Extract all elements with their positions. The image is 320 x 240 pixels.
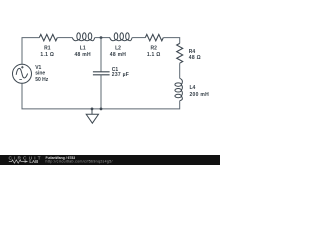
resistor R4 [177,43,183,63]
ground [86,109,98,123]
inductor L2 [110,33,132,41]
logo arrowhead [25,160,29,163]
svg-text:1.1 Ω: 1.1 Ω [147,52,161,58]
wire R2 to top-right corner down to R4 [163,38,179,44]
resistor R2 [145,34,163,40]
wire top-left from source to R1 [22,38,39,65]
svg-text:R2: R2 [150,46,157,52]
capacitor C1 top lead [100,38,102,72]
inductor L4 [175,78,183,100]
svg-text:200 mH: 200 mH [190,92,210,98]
svg-text:LAB: LAB [29,159,38,164]
svg-text:237 µF: 237 µF [112,72,129,78]
svg-text:50 Hz: 50 Hz [35,77,49,83]
svg-text:L4: L4 [190,85,196,91]
inductor L1 [72,33,94,41]
svg-text:http://circuitlab.com/c/f5b9nq: http://circuitlab.com/c/f5b9nq2s4g5/ [46,160,113,164]
svg-text:L1: L1 [80,46,86,52]
resistor R1 [39,34,57,40]
svg-text:1.1 Ω: 1.1 Ω [40,52,54,58]
svg-text:48 mH: 48 mH [110,52,127,58]
junction dot ground [91,108,94,111]
svg-text:48 Ω: 48 Ω [189,55,201,61]
capacitor C1 bottom lead [100,75,102,109]
node A junction dot [100,36,103,39]
svg-text:L2: L2 [115,46,121,52]
voltage source V1 [13,64,32,83]
svg-text:sine: sine [35,70,45,76]
wire R1 to L1 [57,37,72,39]
logo zigzag wire [9,160,25,163]
junction dot C1-bottom [100,108,103,111]
capacitor C1 [93,72,110,75]
svg-text:R1: R1 [44,46,51,52]
wire L4 to bottom rail [22,83,180,109]
svg-text:48 mH: 48 mH [74,52,91,58]
footer bar [0,155,220,165]
svg-text:R4: R4 [189,49,196,55]
wire R4 to L4 [179,63,181,78]
wire L1 to node A [95,37,110,39]
wire L2 to R2 [132,37,145,39]
